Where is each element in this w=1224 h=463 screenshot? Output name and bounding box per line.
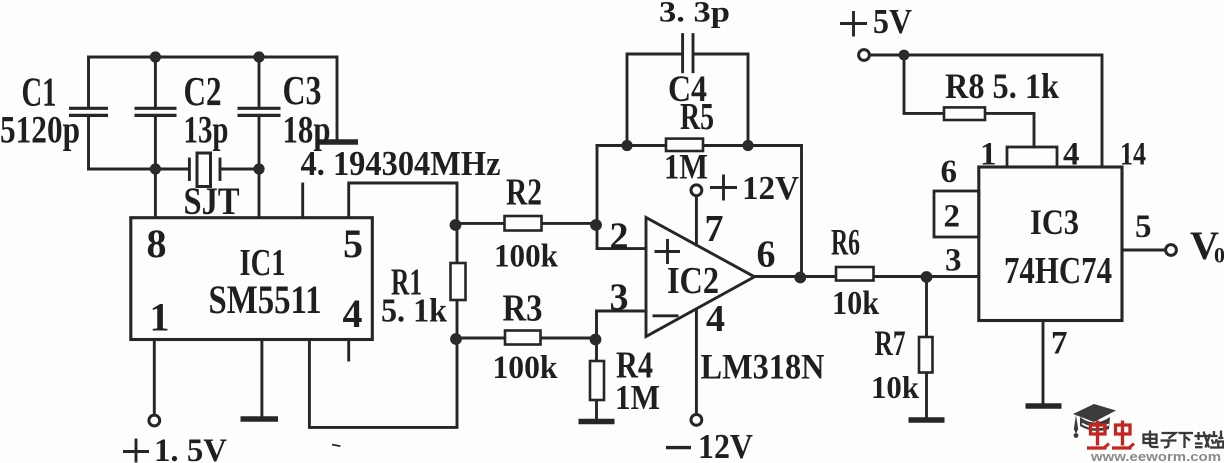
svg-text:0: 0 — [1214, 243, 1224, 268]
svg-text:100k: 100k — [494, 239, 559, 275]
svg-text:R7: R7 — [875, 323, 906, 363]
svg-text:3: 3 — [945, 243, 962, 279]
svg-text:1. 5V: 1. 5V — [154, 433, 227, 463]
svg-text:4: 4 — [706, 298, 725, 340]
svg-text:LM318N: LM318N — [701, 347, 825, 387]
svg-text:12V: 12V — [742, 170, 799, 207]
svg-text:1: 1 — [980, 137, 997, 173]
svg-text:74HC74: 74HC74 — [1004, 250, 1112, 292]
svg-text:R3: R3 — [503, 288, 543, 330]
svg-text:C3: C3 — [283, 67, 322, 113]
svg-text:SJT: SJT — [184, 180, 240, 223]
svg-text:C2: C2 — [184, 68, 222, 114]
svg-text:C4: C4 — [668, 69, 707, 110]
svg-text:3. 3p: 3. 3p — [659, 0, 730, 29]
svg-text:14: 14 — [1120, 137, 1146, 173]
svg-text:5: 5 — [1135, 209, 1152, 245]
svg-text:4. 194304MHz: 4. 194304MHz — [301, 144, 501, 183]
svg-text:3: 3 — [610, 277, 629, 319]
svg-text:7: 7 — [705, 208, 724, 250]
svg-text:IC3: IC3 — [1030, 202, 1079, 242]
svg-text:6: 6 — [757, 234, 776, 276]
svg-text:5: 5 — [343, 221, 363, 266]
svg-text:10k: 10k — [832, 285, 879, 322]
svg-text:12V: 12V — [698, 427, 753, 463]
svg-text:10k: 10k — [871, 369, 919, 405]
svg-text:1: 1 — [150, 295, 170, 340]
svg-text:6: 6 — [941, 154, 958, 190]
svg-text:4: 4 — [343, 291, 363, 336]
svg-text:R8 5. 1k: R8 5. 1k — [945, 66, 1059, 106]
svg-text:R6: R6 — [831, 223, 860, 264]
svg-text:4: 4 — [1063, 137, 1080, 173]
svg-text:www.eeworm.com: www.eeworm.com — [1090, 450, 1221, 463]
svg-text:SM5511: SM5511 — [209, 277, 322, 322]
svg-text:5. 1k: 5. 1k — [381, 293, 447, 330]
svg-text:8: 8 — [147, 221, 167, 266]
svg-text:5120p: 5120p — [0, 109, 80, 152]
svg-text:100k: 100k — [493, 350, 559, 386]
svg-text:2: 2 — [944, 199, 961, 235]
svg-text:R2: R2 — [506, 172, 542, 214]
svg-text:5V: 5V — [873, 2, 912, 41]
svg-text:7: 7 — [1051, 326, 1068, 362]
svg-text:1M: 1M — [615, 378, 660, 417]
svg-text:2: 2 — [610, 216, 629, 258]
svg-text:1M: 1M — [664, 147, 708, 187]
svg-text:13p: 13p — [184, 108, 229, 151]
svg-text:IC2: IC2 — [667, 260, 719, 302]
